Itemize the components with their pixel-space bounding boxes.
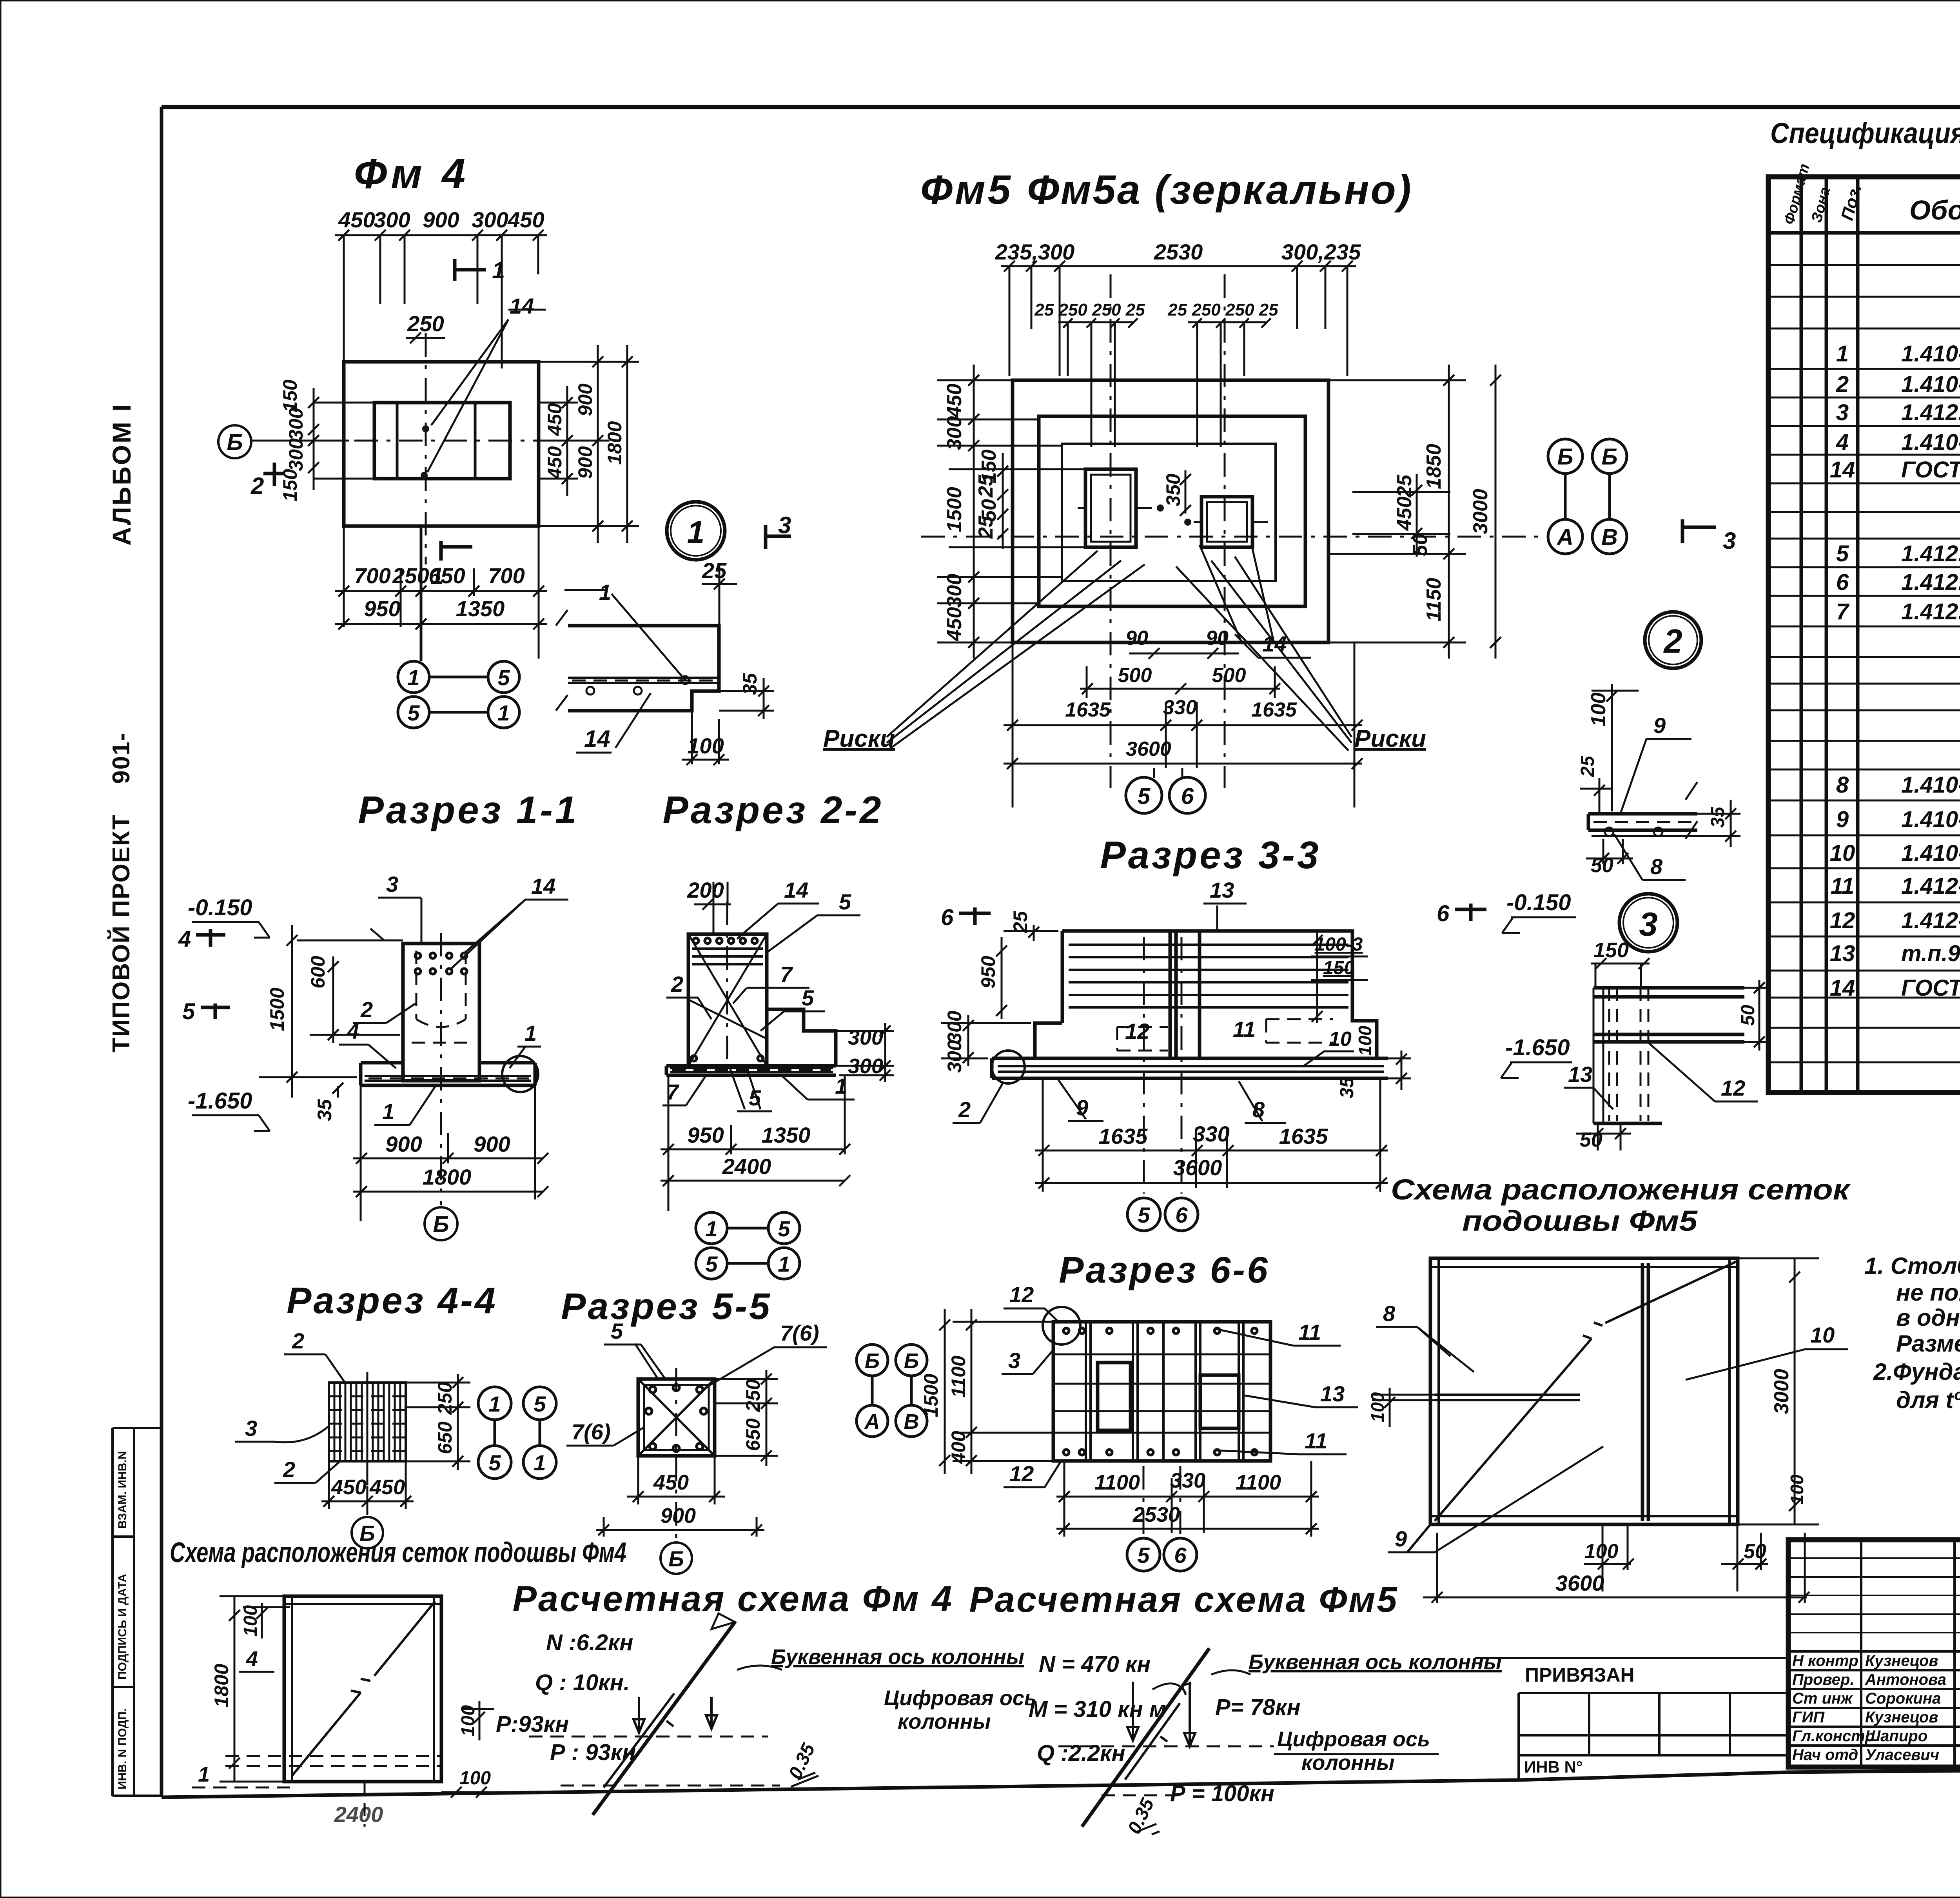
svg-text:1.410-2; Вып.1: 1.410-2; Вып.1 [1901, 772, 1960, 798]
svg-text:ГОСТ 24379.1-80: ГОСТ 24379.1-80 [1901, 457, 1960, 483]
svg-text:12: 12 [1125, 1019, 1149, 1043]
svg-text:Р = 100кн: Р = 100кн [1170, 1781, 1274, 1806]
svg-text:2400: 2400 [722, 1154, 771, 1179]
svg-text:700: 700 [488, 563, 524, 588]
svg-text:10: 10 [1810, 1323, 1835, 1347]
svg-text:8: 8 [1650, 854, 1663, 879]
svg-text:1100: 1100 [1094, 1471, 1140, 1494]
svg-text:100: 100 [240, 1605, 261, 1637]
svg-text:5: 5 [182, 999, 195, 1024]
svg-text:для tºн = -30°С: для tºн = -30°С [1896, 1387, 1960, 1413]
svg-text:300: 300 [944, 1040, 965, 1073]
svg-text:300: 300 [472, 207, 508, 232]
svg-text:Цифровая ось: Цифровая ось [1277, 1727, 1430, 1751]
svg-text:1500: 1500 [920, 1374, 942, 1417]
svg-text:300: 300 [848, 1026, 883, 1049]
svg-text:1100: 1100 [1236, 1471, 1281, 1494]
svg-text:1.410-2, Вып.1: 1.410-2, Вып.1 [1901, 430, 1960, 455]
svg-text:0.35: 0.35 [785, 1740, 819, 1782]
svg-text:4: 4 [1836, 430, 1849, 455]
svg-text:90: 90 [1206, 627, 1229, 650]
svg-text:1.412.1-4.080: 1.412.1-4.080 [1901, 599, 1960, 624]
svg-text:450: 450 [544, 403, 566, 436]
svg-text:5: 5 [1138, 784, 1151, 809]
svg-text:Кузнецов: Кузнецов [1865, 1709, 1938, 1726]
svg-text:3000: 3000 [1469, 489, 1492, 534]
svg-text:Разрез 6-6: Разрез 6-6 [1059, 1249, 1270, 1291]
svg-text:Нач отд: Нач отд [1792, 1746, 1858, 1764]
svg-text:ПРИВЯЗАН: ПРИВЯЗАН [1525, 1664, 1635, 1686]
svg-text:450: 450 [943, 384, 966, 418]
svg-text:2530: 2530 [1132, 1503, 1180, 1526]
svg-text:Разрез 2-2: Разрез 2-2 [662, 788, 883, 831]
svg-text:2: 2 [250, 473, 264, 499]
svg-text:100: 100 [1355, 1025, 1375, 1056]
svg-text:5: 5 [1138, 1203, 1150, 1227]
svg-text:1: 1 [524, 1021, 537, 1045]
svg-text:1800: 1800 [423, 1165, 472, 1189]
svg-text:4: 4 [347, 1019, 359, 1043]
svg-text:235,300: 235,300 [995, 240, 1074, 264]
svg-text:900: 900 [474, 1132, 510, 1156]
svg-text:2: 2 [360, 997, 373, 1022]
svg-text:150: 150 [1323, 958, 1354, 978]
svg-text:25: 25 [1009, 911, 1031, 933]
svg-text:2400: 2400 [334, 1802, 383, 1827]
svg-text:1: 1 [1836, 341, 1849, 367]
svg-text:3: 3 [1723, 528, 1736, 554]
svg-text:1.410-2; Вып.1: 1.410-2; Вып.1 [1901, 840, 1960, 866]
svg-text:6: 6 [941, 905, 954, 930]
svg-text:100: 100 [1584, 1540, 1619, 1563]
svg-text:900: 900 [574, 446, 596, 479]
svg-text:14: 14 [584, 726, 610, 752]
svg-text:1635: 1635 [1279, 1124, 1328, 1149]
svg-text:Расчетная схема Фм 4: Расчетная схема Фм 4 [513, 1579, 954, 1619]
svg-text:1850: 1850 [1423, 444, 1445, 489]
svg-text:М = 310 кн м: М = 310 кн м [1029, 1697, 1166, 1722]
svg-text:1: 1 [778, 1252, 790, 1276]
svg-text:35: 35 [314, 1099, 336, 1121]
svg-text:3600: 3600 [1173, 1155, 1222, 1180]
svg-text:N :6.2кн: N :6.2кн [546, 1630, 633, 1655]
svg-text:Размеры и привязку столбиков с: Размеры и привязку столбиков см. лист 5. [1896, 1330, 1960, 1357]
svg-text:450: 450 [331, 1475, 367, 1499]
svg-text:250: 250 [392, 563, 429, 588]
svg-text:ИНВ. N ПОДП.: ИНВ. N ПОДП. [116, 1708, 129, 1789]
svg-text:25: 25 [1577, 755, 1598, 777]
svg-text:6: 6 [1181, 784, 1194, 809]
svg-text:330: 330 [1163, 696, 1197, 719]
svg-text:5: 5 [802, 985, 814, 1010]
svg-text:650: 650 [742, 1418, 764, 1451]
svg-text:Обозначение: Обозначение [1909, 195, 1960, 225]
svg-text:Н контр: Н контр [1792, 1652, 1858, 1669]
svg-text:Расчетная схема Фм5: Расчетная схема Фм5 [969, 1580, 1398, 1620]
svg-text:Ст инж: Ст инж [1792, 1690, 1853, 1707]
svg-text:330: 330 [1170, 1469, 1205, 1492]
svg-text:450: 450 [653, 1471, 689, 1494]
svg-text:900: 900 [385, 1132, 422, 1156]
svg-text:25 250 250 25: 25 250 250 25 [1167, 300, 1278, 319]
svg-text:Формат: Формат [1781, 162, 1813, 226]
svg-text:1.412-1/77-В.3-100: 1.412-1/77-В.3-100 [1901, 873, 1960, 899]
svg-text:2: 2 [283, 1457, 295, 1482]
svg-text:14: 14 [531, 874, 555, 898]
svg-text:Шапиро: Шапиро [1865, 1727, 1927, 1745]
svg-text:1.412.1-4.080: 1.412.1-4.080 [1901, 570, 1960, 595]
svg-text:13: 13 [1320, 1381, 1345, 1406]
svg-text:Р= 78кн: Р= 78кн [1215, 1695, 1301, 1720]
svg-text:3: 3 [386, 872, 398, 896]
svg-text:Фм5: Фм5 [920, 167, 1013, 213]
svg-text:в одной опалубке с фундаментам: в одной опалубке с фундаментами. [1896, 1305, 1960, 1331]
svg-text:1: 1 [488, 1392, 501, 1416]
svg-text:11: 11 [1233, 1017, 1256, 1042]
svg-text:1: 1 [407, 665, 419, 690]
svg-text:50: 50 [1744, 1540, 1766, 1563]
svg-text:1. Столбики под фундаментные б: 1. Столбики под фундаментные балки и вор… [1864, 1253, 1960, 1279]
svg-text:Риски: Риски [823, 725, 895, 752]
svg-text:250: 250 [407, 311, 444, 336]
svg-text:Б: Б [227, 430, 243, 455]
svg-text:2.Фундаменты Фм5 и Фм5а разраб: 2.Фундаменты Фм5 и Фм5а разработан [1873, 1359, 1960, 1385]
svg-text:25: 25 [975, 474, 997, 498]
svg-text:450: 450 [507, 207, 544, 232]
svg-text:колонны: колонны [898, 1710, 991, 1733]
svg-text:13: 13 [1830, 941, 1855, 966]
svg-text:200: 200 [687, 878, 724, 902]
svg-text:2: 2 [958, 1097, 971, 1122]
svg-text:3600: 3600 [1555, 1571, 1604, 1595]
svg-text:900: 900 [661, 1504, 696, 1528]
svg-text:650: 650 [428, 563, 465, 588]
svg-text:Разрез 4-4: Разрез 4-4 [287, 1280, 497, 1321]
svg-text:-1.650: -1.650 [1505, 1035, 1570, 1060]
svg-text:5: 5 [611, 1319, 623, 1343]
svg-text:-1.650: -1.650 [188, 1088, 252, 1114]
svg-text:6: 6 [1437, 901, 1450, 926]
svg-text:450: 450 [369, 1475, 405, 1499]
svg-text:1.410-2; Вып.1: 1.410-2; Вып.1 [1901, 807, 1960, 832]
svg-text:100: 100 [1587, 693, 1610, 727]
svg-text:5: 5 [705, 1252, 718, 1276]
svg-text:1635: 1635 [1065, 699, 1111, 721]
svg-text:Буквенная ось колонны: Буквенная ось колонны [771, 1645, 1024, 1669]
svg-text:5: 5 [534, 1392, 546, 1416]
svg-text:12: 12 [1009, 1461, 1034, 1486]
svg-text:5: 5 [488, 1450, 501, 1475]
svg-text:Гл.констр: Гл.констр [1792, 1727, 1875, 1745]
svg-text:25: 25 [975, 515, 997, 539]
svg-text:1: 1 [382, 1099, 394, 1124]
svg-text:1.410-2; Вып.1: 1.410-2; Вып.1 [1901, 341, 1960, 367]
svg-text:4: 4 [178, 926, 191, 952]
svg-text:Спецификация элементов монолит: Спецификация элементов монолитной констр… [1770, 117, 1960, 149]
svg-text:Антонова: Антонова [1865, 1671, 1946, 1688]
svg-text:Q :2.2кн: Q :2.2кн [1037, 1740, 1125, 1766]
svg-text:11: 11 [1831, 873, 1854, 899]
svg-text:3: 3 [245, 1416, 257, 1441]
svg-text:1: 1 [534, 1450, 546, 1475]
svg-text:3: 3 [1008, 1348, 1020, 1373]
svg-text:Разрез 1-1: Разрез 1-1 [358, 788, 579, 831]
svg-text:12: 12 [1009, 1282, 1034, 1307]
svg-text:2530: 2530 [1154, 240, 1203, 264]
svg-text:1: 1 [492, 257, 505, 283]
svg-text:5: 5 [497, 665, 510, 690]
svg-text:25 250 250 25: 25 250 250 25 [1034, 300, 1145, 319]
svg-text:Б: Б [1557, 444, 1573, 470]
svg-text:400: 400 [947, 1431, 969, 1464]
svg-text:1: 1 [497, 700, 510, 725]
svg-text:ПОДПИСЬ И ДАТА: ПОДПИСЬ И ДАТА [116, 1574, 129, 1680]
svg-text:3: 3 [1836, 400, 1849, 425]
svg-text:1.412.-1-4.050: 1.412.-1-4.050 [1901, 400, 1960, 425]
svg-text:Б: Б [433, 1212, 449, 1237]
svg-text:1150: 1150 [1423, 578, 1445, 622]
svg-text:14: 14 [784, 878, 808, 902]
svg-text:5: 5 [1836, 541, 1849, 566]
svg-text:100: 100 [1787, 1474, 1807, 1504]
svg-text:450: 450 [943, 607, 966, 642]
svg-text:14: 14 [1830, 975, 1855, 1001]
svg-text:150: 150 [1593, 938, 1629, 962]
svg-text:50: 50 [1738, 1005, 1759, 1026]
svg-text:5: 5 [1137, 1543, 1150, 1568]
svg-text:В: В [1601, 524, 1618, 550]
svg-text:ГОСТ 24379.1-80: ГОСТ 24379.1-80 [1901, 975, 1960, 1001]
svg-text:14: 14 [1830, 457, 1855, 483]
svg-text:300,235: 300,235 [1281, 240, 1361, 264]
svg-text:ГИП: ГИП [1792, 1709, 1825, 1726]
svg-text:Уласевич: Уласевич [1865, 1746, 1939, 1764]
svg-text:6: 6 [1836, 570, 1849, 595]
svg-text:1635: 1635 [1099, 1124, 1148, 1149]
svg-text:Поз.: Поз. [1837, 182, 1865, 223]
svg-text:Б: Б [668, 1546, 684, 1571]
svg-text:Кузнецов: Кузнецов [1865, 1652, 1938, 1669]
svg-text:9: 9 [1395, 1526, 1407, 1551]
svg-text:Разрез 3-3: Разрез 3-3 [1100, 833, 1321, 876]
svg-text:ТИПОВОЙ ПРОЕКТ 901-: ТИПОВОЙ ПРОЕКТ 901- [107, 732, 135, 1052]
svg-text:100: 100 [459, 1768, 491, 1789]
svg-text:1.410-2; Вып.1: 1.410-2; Вып.1 [1901, 372, 1960, 397]
svg-text:1.412-1/77-В.3-110: 1.412-1/77-В.3-110 [1901, 908, 1960, 933]
svg-text:3: 3 [778, 512, 791, 538]
svg-text:Схема расположения сеток: Схема расположения сеток [1391, 1173, 1851, 1206]
svg-text:5: 5 [778, 1216, 790, 1241]
svg-text:1800: 1800 [604, 421, 626, 465]
svg-text:Буквенная ось колонны: Буквенная ось колонны [1249, 1650, 1502, 1674]
svg-text:2: 2 [1836, 372, 1849, 397]
svg-text:Фм 4: Фм 4 [354, 150, 469, 197]
svg-text:Цифровая ось: Цифровая ось [884, 1686, 1037, 1710]
svg-text:1: 1 [705, 1216, 717, 1241]
svg-text:ИНВ N°: ИНВ N° [1524, 1758, 1583, 1776]
svg-text:5: 5 [407, 700, 420, 725]
svg-text:Сорокина: Сорокина [1865, 1690, 1941, 1707]
svg-text:1500: 1500 [943, 487, 966, 532]
svg-text:300: 300 [285, 438, 307, 471]
svg-text:4: 4 [246, 1647, 258, 1671]
svg-text:300: 300 [944, 1011, 965, 1043]
svg-text:Б: Б [1601, 444, 1617, 470]
svg-text:1: 1 [687, 515, 705, 550]
svg-text:5: 5 [839, 889, 851, 914]
svg-text:700: 700 [354, 563, 390, 588]
svg-text:300: 300 [374, 207, 410, 232]
svg-text:В: В [904, 1410, 919, 1433]
svg-text:6: 6 [1174, 1543, 1187, 1568]
svg-text:Р:93кн: Р:93кн [496, 1711, 569, 1737]
svg-text:500: 500 [1212, 664, 1246, 687]
svg-text:150: 150 [279, 379, 301, 412]
svg-text:7(6): 7(6) [780, 1321, 819, 1345]
svg-text:330: 330 [1193, 1121, 1229, 1146]
svg-text:-0.150: -0.150 [1506, 890, 1571, 915]
svg-text:подошвы Фм5: подошвы Фм5 [1462, 1205, 1698, 1237]
svg-text:Провер.: Провер. [1792, 1671, 1855, 1688]
svg-text:Б: Б [904, 1349, 919, 1373]
svg-text:7: 7 [1836, 599, 1850, 624]
svg-text:10: 10 [1830, 840, 1855, 866]
svg-text:АЛЬБОМ I: АЛЬБОМ I [107, 403, 136, 546]
svg-text:А: А [864, 1410, 880, 1433]
svg-text:6: 6 [1175, 1203, 1188, 1227]
svg-text:350: 350 [1162, 474, 1184, 506]
svg-text:12: 12 [1830, 908, 1855, 933]
svg-text:1: 1 [198, 1763, 210, 1786]
svg-text:Фм5а (зеркально): Фм5а (зеркально) [1027, 167, 1413, 213]
svg-text:Q : 10кн.: Q : 10кн. [535, 1670, 630, 1695]
svg-text:35: 35 [1708, 806, 1728, 828]
svg-text:11: 11 [1305, 1428, 1327, 1453]
svg-text:12: 12 [1721, 1076, 1745, 1100]
svg-text:т.п.901-3- -КЖИ-0.1: т.п.901-3- -КЖИ-0.1 [1901, 941, 1960, 966]
svg-text:300: 300 [285, 408, 307, 441]
svg-text:1.412.1-4.080: 1.412.1-4.080 [1901, 541, 1960, 566]
svg-text:1350: 1350 [762, 1123, 811, 1147]
svg-text:1500: 1500 [266, 987, 288, 1031]
svg-text:950: 950 [687, 1123, 724, 1147]
svg-text:3: 3 [1639, 906, 1657, 943]
svg-text:13: 13 [1210, 878, 1234, 902]
svg-text:1800: 1800 [211, 1664, 232, 1707]
svg-text:950: 950 [364, 596, 400, 621]
svg-text:100-3: 100-3 [1315, 934, 1363, 955]
svg-text:А: А [1556, 524, 1573, 550]
svg-text:1635: 1635 [1251, 699, 1297, 721]
svg-text:2: 2 [671, 972, 683, 996]
svg-text:2: 2 [1663, 623, 1682, 660]
svg-text:14: 14 [1262, 631, 1287, 656]
svg-text:13: 13 [1568, 1062, 1592, 1087]
svg-text:450: 450 [338, 207, 375, 232]
svg-text:не показаны, но их необходимо: не показаны, но их необходимо выполнять [1896, 1279, 1960, 1306]
svg-text:11: 11 [1298, 1320, 1321, 1345]
svg-text:8: 8 [1836, 772, 1849, 798]
svg-text:9: 9 [1836, 807, 1849, 832]
svg-text:3000: 3000 [1770, 1369, 1793, 1414]
svg-text:-0.150: -0.150 [188, 895, 252, 920]
svg-text:1350: 1350 [456, 596, 505, 621]
svg-text:7(6): 7(6) [572, 1419, 611, 1444]
svg-text:Разрез 5-5: Разрез 5-5 [561, 1286, 772, 1327]
svg-text:35: 35 [1337, 1077, 1357, 1098]
svg-text:600: 600 [307, 956, 329, 989]
svg-text:1: 1 [599, 580, 611, 604]
svg-text:14: 14 [510, 294, 534, 318]
svg-text:N = 470 кн: N = 470 кн [1039, 1651, 1151, 1677]
svg-text:900: 900 [423, 207, 459, 232]
svg-text:7: 7 [780, 962, 793, 987]
svg-text:450: 450 [544, 446, 566, 479]
svg-text:9: 9 [1653, 713, 1666, 738]
svg-text:2: 2 [292, 1328, 304, 1353]
svg-text:950: 950 [977, 956, 999, 989]
svg-text:ВЗАМ. ИНВ.N: ВЗАМ. ИНВ.N [116, 1451, 129, 1529]
svg-text:10: 10 [1329, 1028, 1352, 1051]
svg-text:Схема расположения сеток подош: Схема расположения сеток подошвы Фм4 [170, 1537, 626, 1568]
svg-text:3600: 3600 [1126, 738, 1171, 760]
svg-text:500: 500 [1118, 664, 1152, 687]
svg-text:Риски: Риски [1354, 725, 1426, 752]
svg-text:900: 900 [574, 383, 596, 416]
svg-text:90: 90 [1125, 627, 1148, 650]
svg-text:450: 450 [1393, 497, 1416, 531]
svg-text:Зона: Зона [1808, 185, 1833, 224]
svg-text:Б: Б [865, 1349, 880, 1373]
svg-text:650: 650 [434, 1421, 456, 1454]
svg-text:8: 8 [1383, 1301, 1396, 1326]
svg-text:1100: 1100 [947, 1355, 969, 1398]
